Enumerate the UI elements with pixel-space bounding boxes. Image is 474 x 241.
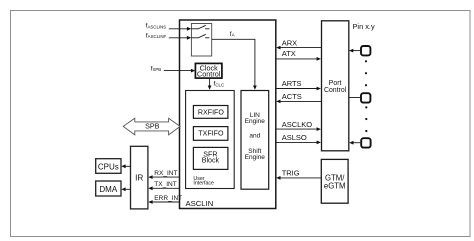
wire fASCLINS (169, 28, 188, 30)
SPB bus arrow (123, 118, 180, 135)
wire IR to CPUs (125, 165, 131, 167)
svg-text:CPUs: CPUs (98, 162, 119, 171)
svg-text:ACTS: ACTS (282, 92, 302, 101)
svg-text:TXFIFO: TXFIFO (198, 130, 224, 138)
IR box (131, 146, 148, 209)
svg-text:ASCLKO: ASCLKO (282, 120, 313, 129)
svg-text:ARX: ARX (282, 38, 297, 47)
svg-text:eGTM: eGTM (324, 182, 346, 191)
svg-text:fASCLINS: fASCLINS (146, 23, 167, 30)
clock control box (195, 63, 222, 78)
dots column upper (365, 60, 367, 62)
switch S (fASCLINS path) (191, 25, 209, 29)
svg-text:RXFIFO: RXFIFO (198, 109, 224, 117)
svg-text:fSPB: fSPB (151, 65, 162, 72)
switch F (fASCLINF path) (191, 34, 209, 38)
svg-text:Pin x.y: Pin x.y (353, 22, 375, 31)
clock switch box (191, 24, 211, 57)
wire fA (212, 39, 255, 86)
svg-text:ASLSO: ASLSO (282, 133, 307, 142)
svg-text:ERR_INT: ERR_INT (154, 195, 182, 202)
wire pad1 to port control (352, 50, 360, 52)
svg-text:Interface: Interface (193, 180, 214, 186)
svg-text:TRIG: TRIG (282, 169, 300, 178)
svg-text:fCLC: fCLC (214, 81, 225, 88)
wire fCLC (209, 78, 211, 86)
svg-text:Control: Control (197, 70, 221, 79)
svg-text:ARTS: ARTS (282, 79, 302, 88)
pin pad 1 (361, 46, 370, 55)
svg-text:DMA: DMA (99, 185, 117, 194)
CPUs box (96, 159, 121, 174)
svg-text:RX_INT: RX_INT (154, 170, 177, 177)
svg-text:Control: Control (324, 87, 347, 94)
svg-text:fASCLINF: fASCLINF (146, 32, 167, 39)
svg-text:Engine: Engine (245, 118, 266, 125)
wire fASCLINF (169, 37, 188, 39)
pin pad 2 (361, 93, 370, 102)
port control box (322, 21, 349, 151)
RXFIFO box (193, 106, 228, 119)
svg-text:IR: IR (135, 174, 143, 183)
ASCLIN module box (180, 20, 276, 209)
pin pad 3 (361, 138, 370, 147)
wire pad3 to port control (353, 142, 361, 144)
svg-text:Port: Port (329, 80, 342, 87)
SFR block box (193, 147, 228, 169)
svg-text:ASCLIN: ASCLIN (186, 199, 214, 208)
svg-text:ATX: ATX (282, 49, 296, 58)
dots column lower (365, 106, 367, 108)
user interface box (186, 91, 235, 189)
LIN engine / shift engine box (241, 91, 269, 190)
svg-text:fA: fA (230, 31, 235, 38)
svg-text:SPB: SPB (145, 122, 160, 131)
svg-text:TX_INT: TX_INT (154, 181, 176, 188)
GTM box (321, 159, 348, 203)
wire fSPB (164, 70, 192, 72)
svg-text:Block: Block (202, 157, 220, 165)
svg-text:and: and (249, 133, 260, 140)
svg-text:Engine: Engine (245, 154, 266, 161)
wire pad2 to port control (349, 97, 360, 99)
TXFIFO box (193, 127, 228, 141)
DMA box (96, 181, 121, 196)
wire IR to DMA (125, 188, 131, 190)
